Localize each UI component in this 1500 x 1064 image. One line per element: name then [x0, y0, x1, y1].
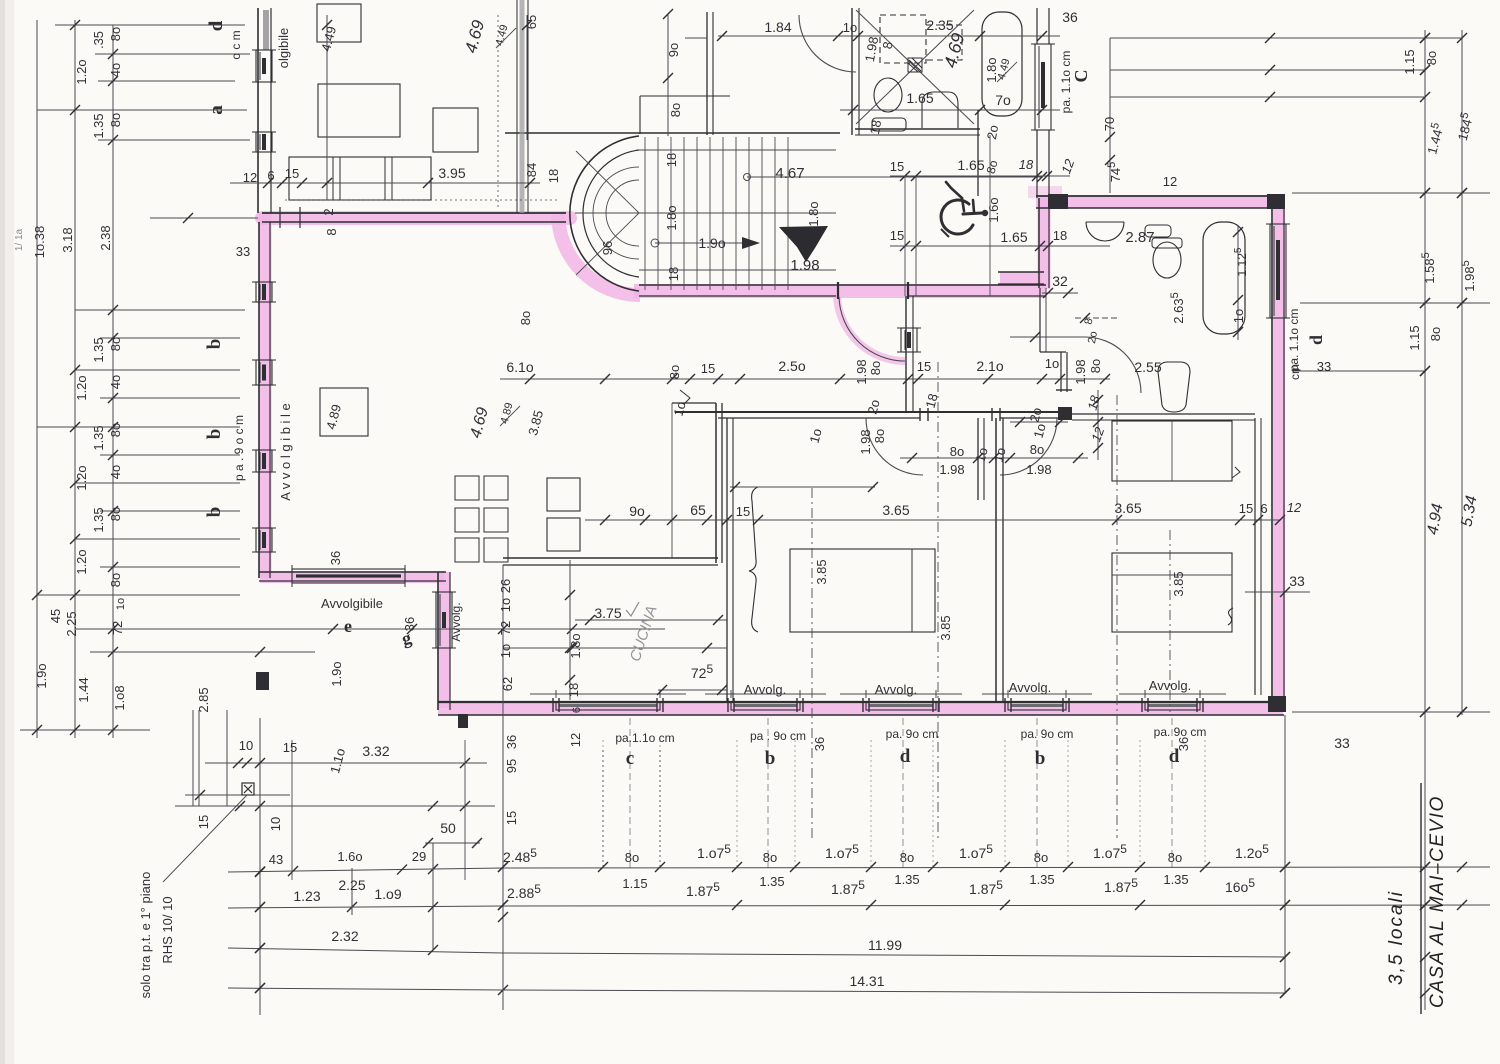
svg-text:33: 33 — [1317, 359, 1331, 374]
washbasin top bath — [922, 92, 958, 128]
svg-text:1.98: 1.98 — [858, 429, 873, 454]
dim v x260 bottom — [259, 718, 261, 1015]
wall corridor horiz b2 — [1000, 417, 1068, 419]
dim h y25 — [55, 24, 245, 26]
dim h y905 — [228, 906, 503, 908]
wall kitchen left thin — [671, 403, 673, 558]
stair diagonal down-left — [576, 213, 639, 275]
svg-text:15: 15 — [285, 166, 299, 181]
wall bath jog horiz — [1040, 351, 1066, 353]
svg-text:1.65: 1.65 — [1000, 229, 1027, 245]
dim v x527 topleft — [526, 15, 528, 140]
svg-text:Avvolg.: Avvolg. — [1149, 678, 1191, 693]
dim v x905 wc — [904, 176, 906, 296]
svg-text:15: 15 — [283, 740, 297, 755]
svg-text:1.35: 1.35 — [91, 337, 106, 362]
pink highlight left wall — [259, 212, 272, 578]
dim h y338 — [100, 337, 240, 339]
svg-text:b: b — [1035, 748, 1046, 769]
svg-text:c: c — [626, 748, 634, 769]
wall corridor-left pair — [905, 296, 907, 411]
dim h y379 main — [500, 378, 1110, 380]
svg-text:18: 18 — [546, 169, 561, 183]
svg-text:15: 15 — [736, 504, 750, 519]
paper left edge shading — [0, 0, 14, 1064]
door arc corridor-left — [866, 418, 923, 475]
dim h y193 right — [1292, 192, 1490, 194]
svg-text:36: 36 — [402, 617, 417, 631]
wall left-bottom vert b — [449, 572, 451, 710]
toilet top bath — [874, 78, 902, 112]
wall bath-left b — [1048, 208, 1050, 288]
dim v x938 long — [937, 362, 939, 838]
svg-text:3.18: 3.18 — [60, 227, 75, 252]
svg-text:72: 72 — [110, 621, 125, 635]
shower cross hatch — [908, 58, 922, 72]
window corridor-left wall — [901, 328, 917, 352]
wall bath-left thin cont a — [1039, 288, 1041, 352]
dim v x498 topleft — [497, 15, 499, 210]
wall left-bottom vert a — [437, 572, 439, 710]
pink highlight left lower jog wall — [260, 571, 444, 583]
wall centre top double b — [712, 12, 714, 135]
svg-text:36: 36 — [1062, 9, 1078, 25]
svg-text:3.65: 3.65 — [882, 502, 909, 518]
dim h y36 top — [718, 35, 1060, 37]
svg-text:15: 15 — [917, 359, 931, 374]
svg-text:70: 70 — [1102, 117, 1117, 131]
svg-text:12: 12 — [1163, 174, 1177, 189]
wall jog horiz b — [259, 580, 446, 582]
window W-bottom-1 — [731, 702, 800, 710]
svg-text:1o: 1o — [1045, 356, 1059, 371]
dim h y867 main — [228, 868, 503, 872]
svg-text:d: d — [1169, 746, 1180, 767]
svg-text:12: 12 — [243, 170, 257, 185]
svg-text:1.2o: 1.2o — [74, 375, 89, 400]
stair bottom wall a — [639, 284, 1046, 286]
svg-text:1.35: 1.35 — [91, 507, 106, 532]
dim h y398 — [100, 397, 240, 399]
door arc corridor-stair — [839, 297, 905, 361]
wall right b — [1283, 196, 1285, 710]
label RHS diag — [163, 795, 247, 882]
svg-text:Avvolg.: Avvolg. — [875, 682, 917, 697]
dim h y957 — [228, 948, 503, 953]
svg-text:1.2o: 1.2o — [74, 465, 89, 490]
bed room1 — [790, 549, 935, 632]
svg-text:3.65: 3.65 — [1114, 500, 1141, 516]
svg-text:18: 18 — [1019, 157, 1034, 172]
svg-text:29: 29 — [412, 849, 426, 864]
svg-text:50: 50 — [440, 820, 456, 836]
pink highlight right wall — [1273, 198, 1285, 708]
wardrobe room2 rect — [1112, 421, 1232, 481]
svg-text:36: 36 — [328, 551, 343, 565]
svg-text:33: 33 — [236, 244, 250, 259]
svg-text:2.32: 2.32 — [331, 928, 358, 944]
dim v x37 — [36, 20, 38, 738]
zigzag right wall break — [1232, 467, 1240, 478]
dim h y511 — [100, 510, 240, 512]
pier black top-right-right end — [1267, 194, 1285, 209]
sofa top-left — [289, 157, 431, 200]
svg-text:1.9o: 1.9o — [698, 235, 725, 251]
svg-text:8o: 8o — [108, 27, 123, 41]
dim h y370 — [75, 369, 240, 371]
svg-text:1.15: 1.15 — [1402, 49, 1417, 74]
svg-text:2.25: 2.25 — [64, 611, 79, 636]
wall left-upper line b — [270, 8, 272, 213]
dotted y200 topleft — [285, 199, 560, 201]
svg-text:cm: cm — [1288, 364, 1302, 380]
svg-text:8o: 8o — [108, 337, 123, 351]
stair treads — [644, 137, 646, 290]
dim h y567 — [100, 566, 240, 568]
pink highlight top-left wall — [262, 211, 570, 225]
wall kitchen top thin — [672, 402, 716, 404]
svg-text:18: 18 — [566, 683, 581, 697]
svg-text:1.35: 1.35 — [1163, 872, 1188, 887]
wall left-upper line a — [257, 8, 259, 213]
wall top-centre thin b — [527, 0, 529, 213]
dim h y54 — [95, 53, 250, 55]
svg-text:8o: 8o — [668, 103, 683, 117]
stair top inner line — [639, 149, 836, 151]
door jamb stair wall right — [907, 282, 909, 299]
svg-text:1.8o: 1.8o — [664, 205, 679, 230]
svg-text:1.65: 1.65 — [957, 157, 984, 173]
wall left-lower line a — [258, 222, 260, 578]
svg-text:18: 18 — [666, 267, 681, 281]
wall bottom a — [438, 701, 1284, 703]
dim h y993 — [228, 988, 503, 990]
stair mid arc — [593, 167, 639, 259]
label 4.89 box — [320, 388, 368, 436]
wall topbath horiz b — [855, 134, 980, 136]
dim h y712 right — [1292, 711, 1490, 713]
dim kitchen h y648 — [503, 647, 727, 649]
wall topbath vert x855 a — [851, 8, 853, 135]
wall top-left horiz a — [262, 212, 566, 214]
svg-text:e: e — [344, 616, 352, 636]
dim h y176 wc — [890, 175, 1070, 177]
duct box top-centre — [640, 95, 730, 97]
svg-text:1o: 1o — [115, 598, 127, 610]
wall stub pair central — [977, 418, 979, 500]
svg-text:1.2o: 1.2o — [74, 549, 89, 574]
svg-text:CASA AL MAI–CEVIO: CASA AL MAI–CEVIO — [1427, 795, 1448, 1008]
dim h y81 — [98, 80, 235, 82]
svg-text:36: 36 — [504, 735, 519, 749]
stair bottom wall right b — [908, 295, 1046, 297]
shower dashed rect — [880, 15, 926, 63]
curly brace room1 — [749, 487, 758, 632]
wall living-left vert b — [732, 418, 734, 702]
svg-text:RHS 10/ 10: RHS 10/ 10 — [160, 896, 175, 963]
svg-text:8: 8 — [324, 228, 339, 235]
dim v x916 wc — [915, 176, 917, 296]
window W-bottom-kitchen — [556, 702, 660, 710]
dim h y806 — [175, 805, 495, 807]
dim v x1285 bottom — [1284, 715, 1286, 993]
svg-text:Avvolg.: Avvolg. — [449, 602, 463, 641]
dim v x113 — [112, 25, 114, 738]
stair landing line 2 — [639, 269, 836, 271]
svg-text:1o.38: 1o.38 — [32, 226, 47, 259]
dim h y110 — [37, 109, 247, 111]
svg-text:7o: 7o — [995, 92, 1011, 108]
window W-left-4 — [256, 360, 272, 385]
svg-text:1.35: 1.35 — [1029, 872, 1054, 887]
dim h y177 stair — [747, 176, 1042, 178]
wall bottom b — [438, 714, 1284, 716]
svg-text:1.65: 1.65 — [906, 90, 933, 106]
svg-text:solo tra p.t. e 1° piano: solo tra p.t. e 1° piano — [138, 872, 153, 999]
wardrobe wall room2 vert — [1254, 418, 1256, 695]
label RHS col sym — [242, 783, 254, 795]
svg-text:1/ 1a: 1/ 1a — [14, 228, 25, 251]
wall kitchen-right vert b — [721, 403, 723, 563]
svg-text:Avvolgibile: Avvolgibile — [321, 596, 383, 611]
stair top wall line — [505, 132, 840, 134]
svg-text:43: 43 — [269, 852, 283, 867]
svg-text:3.85: 3.85 — [938, 615, 953, 640]
pier black corridor joint — [1058, 407, 1072, 420]
door jamb corridor-2 — [991, 408, 993, 421]
wardrobe wall room2 horiz — [1072, 413, 1255, 415]
dim short y38 top-centre — [685, 37, 707, 39]
svg-text:65: 65 — [690, 502, 706, 518]
dim bath v x1238 — [1237, 225, 1239, 340]
dim v x1117 long — [1116, 395, 1118, 838]
svg-text:15: 15 — [504, 811, 519, 825]
svg-text:Avvolg.: Avvolg. — [744, 682, 786, 697]
svg-text:1.35: 1.35 — [759, 874, 784, 889]
svg-text:3,5 locali: 3,5 locali — [1386, 890, 1407, 985]
svg-text:65: 65 — [524, 15, 539, 29]
stair diagonal up-left — [576, 151, 639, 213]
dim h y293 — [1042, 292, 1078, 294]
svg-text:45: 45 — [48, 609, 63, 623]
dim h y520 main — [585, 519, 1280, 521]
pier black top-right-left end — [1048, 194, 1068, 209]
svg-text:b: b — [204, 339, 225, 350]
dim h y318 dashes — [1075, 317, 1120, 319]
wall top-centre thin a — [516, 0, 518, 213]
pink highlight bath left wall — [1038, 198, 1051, 289]
small box right-bath — [1145, 225, 1171, 237]
svg-text:1o: 1o — [843, 20, 857, 35]
svg-text:2.85: 2.85 — [196, 687, 211, 712]
svg-text:b: b — [204, 507, 225, 518]
svg-text:96: 96 — [600, 241, 615, 255]
svg-text:4.67: 4.67 — [775, 165, 804, 182]
svg-text:18: 18 — [867, 119, 884, 136]
svg-text:1.o9: 1.o9 — [374, 886, 401, 902]
svg-text:1.9o: 1.9o — [34, 663, 49, 688]
svg-text:pa. 1.1o cm: pa. 1.1o cm — [1287, 309, 1301, 372]
svg-text:8o: 8o — [667, 365, 682, 379]
svg-text:8o: 8o — [1428, 327, 1443, 341]
dim h y595 — [37, 594, 240, 596]
door arc bath upper — [1085, 337, 1141, 393]
svg-text:1.15: 1.15 — [1407, 325, 1422, 350]
wall centre top double a — [706, 12, 708, 135]
pink highlight small wall seg y277 — [1000, 272, 1042, 285]
window W-leftbottom — [436, 592, 452, 648]
dim h y183 topleft — [230, 182, 540, 184]
toilet cistern top bath — [872, 118, 906, 131]
svg-text:10: 10 — [239, 738, 253, 753]
door arc corridor-right — [1000, 418, 1057, 475]
svg-text:14.31: 14.31 — [849, 973, 884, 989]
svg-text:1.2o: 1.2o — [74, 59, 89, 84]
dim h y422 — [1010, 421, 1068, 423]
dim corridor v x1098 — [1097, 390, 1099, 460]
dim misc kitchen v x570 — [569, 560, 571, 700]
svg-text:8o: 8o — [1424, 51, 1439, 65]
svg-text:8o: 8o — [518, 311, 533, 325]
wall topbath vert x855 b — [858, 8, 860, 135]
svg-text:8o: 8o — [900, 850, 914, 865]
pier black bottom-left wall — [256, 672, 269, 690]
stair direction arrowhead — [742, 237, 760, 249]
svg-text:11.99: 11.99 — [868, 937, 902, 953]
pink highlight stair arc — [558, 214, 640, 295]
svg-text:1.8o: 1.8o — [568, 633, 583, 658]
svg-text:32: 32 — [1052, 273, 1068, 289]
shower dashed ext — [926, 25, 962, 60]
dim v x503 bottom — [502, 565, 504, 1010]
table top-left room — [318, 84, 400, 137]
kitchen chairs — [455, 476, 479, 500]
svg-text:6.1o: 6.1o — [506, 359, 533, 375]
svg-text:1.8o: 1.8o — [806, 201, 821, 226]
dim v x433 bottom — [432, 843, 434, 950]
dim v window edges — [602, 740, 604, 870]
svg-text:.35: .35 — [91, 31, 106, 49]
stair direction circle — [651, 239, 659, 247]
svg-text:95: 95 — [504, 759, 519, 773]
window W-bottom-4 — [1145, 702, 1200, 710]
dim h y303 right — [1300, 302, 1490, 304]
wall seg y273 b — [998, 283, 1044, 285]
svg-text:9o: 9o — [629, 503, 645, 519]
svg-text:1.84: 1.84 — [764, 19, 791, 35]
svg-text:10: 10 — [268, 817, 283, 831]
dim h y427 — [37, 426, 240, 428]
svg-text:1.6o: 1.6o — [986, 197, 1001, 222]
dim h y140 — [98, 139, 250, 141]
svg-text:4o: 4o — [108, 465, 123, 479]
svg-text:1.35: 1.35 — [894, 872, 919, 887]
svg-text:8o: 8o — [108, 423, 123, 437]
dim h y218-ext — [150, 217, 258, 219]
svg-text:b: b — [765, 748, 776, 769]
svg-text:72: 72 — [498, 621, 513, 635]
svg-text:8o: 8o — [872, 429, 887, 443]
wall top-right a — [1036, 195, 1284, 197]
svg-text:8o: 8o — [950, 444, 964, 459]
svg-text:pa. 9o cm: pa. 9o cm — [1021, 727, 1074, 741]
svg-text:4o: 4o — [108, 375, 123, 389]
dim v x75 — [74, 20, 76, 738]
svg-text:3.95: 3.95 — [438, 165, 465, 181]
pink highlight left-bottom vertical wall — [438, 572, 451, 708]
window W-bottom-2 — [866, 702, 936, 710]
svg-text:8o: 8o — [1168, 850, 1182, 865]
svg-text:2: 2 — [321, 208, 336, 215]
svg-text:12: 12 — [568, 733, 583, 747]
svg-text:62: 62 — [500, 677, 515, 691]
wall bath jog vert a — [1060, 352, 1062, 392]
svg-text:2o: 2o — [1086, 330, 1100, 344]
window W-left-5 — [256, 450, 272, 472]
window W-right — [1270, 224, 1286, 318]
dim h y795 — [185, 794, 290, 796]
dim h y70 right — [1110, 69, 1425, 71]
dim h y629 — [75, 628, 665, 630]
svg-text:d: d — [900, 746, 911, 767]
shower cross 2 — [856, 10, 974, 124]
north triangle filled — [779, 226, 828, 262]
dim h y763 — [205, 762, 487, 764]
wall jog horiz a — [259, 571, 446, 573]
svg-text:8o: 8o — [1030, 442, 1044, 457]
wheelchair symbol — [941, 200, 973, 234]
window W-bottom-3 — [1008, 702, 1066, 710]
svg-text:1.98: 1.98 — [1026, 462, 1051, 477]
dim v x352 bottom — [351, 868, 353, 915]
svg-text:1.98: 1.98 — [939, 462, 964, 477]
wall left-lower line b — [269, 222, 271, 578]
svg-text:15: 15 — [890, 228, 904, 243]
pink highlight corridor bottom wall — [634, 284, 1046, 298]
dim v x1425 — [1424, 30, 1426, 1010]
dim h y539 — [75, 538, 240, 540]
svg-text:1.98: 1.98 — [1073, 359, 1088, 384]
svg-text:1.23: 1.23 — [293, 888, 320, 904]
svg-text:1.44: 1.44 — [76, 677, 91, 702]
dim v x990 wc — [989, 135, 991, 296]
wall bath jog vert b — [1066, 352, 1068, 392]
svg-text:pa. 9o cm: pa. 9o cm — [886, 727, 939, 741]
svg-text:6: 6 — [267, 168, 274, 183]
svg-text:2.38: 2.38 — [98, 225, 113, 250]
svg-text:84: 84 — [524, 163, 539, 177]
svg-text:3.75: 3.75 — [594, 605, 621, 621]
svg-text:3.32: 3.32 — [362, 743, 389, 759]
svg-text:6: 6 — [571, 707, 583, 713]
zigzag room1 — [680, 390, 690, 404]
svg-text:8o: 8o — [108, 573, 123, 587]
black mark near corner — [458, 714, 468, 728]
svg-text:2.25: 2.25 — [338, 877, 365, 893]
dim h y371 right — [1292, 370, 1425, 372]
pink highlight bottom wall — [438, 702, 1283, 715]
svg-text:1.35: 1.35 — [91, 113, 106, 138]
dim h y110 topbath — [840, 109, 1060, 111]
svg-text:6: 6 — [1260, 501, 1267, 516]
dim v x668 top — [667, 14, 669, 136]
svg-text:26: 26 — [498, 579, 513, 593]
dim v x1170 long — [1169, 530, 1171, 712]
dim h y97 right — [1110, 96, 1425, 98]
svg-text:p a . 9 o c m: p a . 9 o c m — [232, 415, 246, 481]
wall left-upper gray insulation — [263, 10, 269, 50]
window W-jog — [292, 569, 405, 583]
